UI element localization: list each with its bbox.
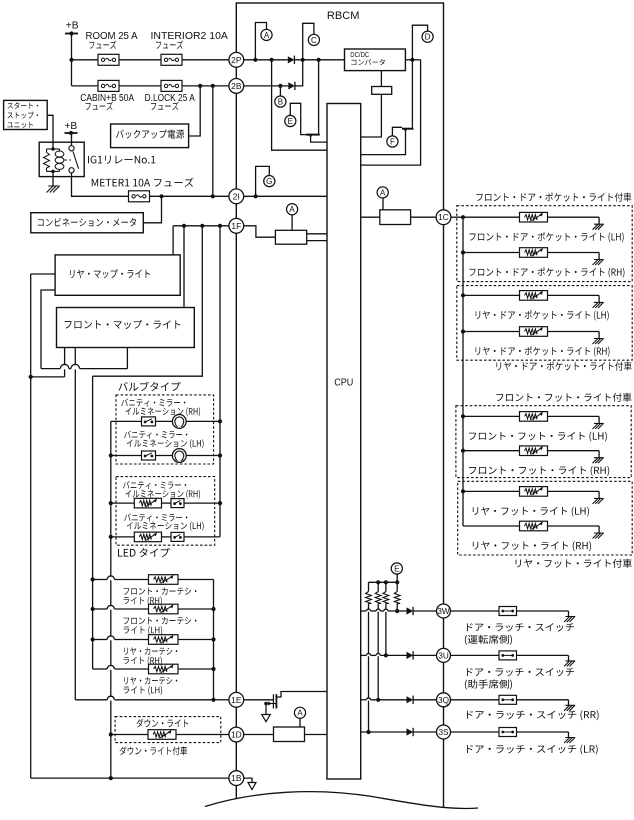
label front courtesy RH line2 (jp) [124,596,162,605]
svg-text:2B: 2B [231,81,242,91]
wire 3S switch [451,731,499,733]
label vanity LED LH line1 (jp) [124,513,187,521]
LED lamp front courtesy LH [149,604,179,614]
backup power unit box [111,124,189,148]
fuse METER1 10A [129,191,150,202]
wire rear door pocket RH row [463,331,520,333]
wire 1D to resistor [244,734,274,736]
wire DC/DC output to CPU [361,60,421,165]
label LED type (jp) [118,548,170,557]
label backup power (jp) [116,129,184,138]
LED lamp front courtesy RH [149,575,179,585]
wire door latch switch LR row [361,731,407,733]
diode door latch switch RR row [407,696,414,703]
wire 2P bus [244,59,288,61]
pin 2P [229,52,244,67]
svg-text:+B: +B [66,21,79,32]
transistor Q2 (F driver) [411,60,413,128]
connector E (bundle) [391,563,402,574]
svg-text:RBCM: RBCM [327,10,360,22]
label front foot light RH (jp) [469,466,609,476]
mosfet Q3 [272,694,274,708]
wire front map pin2 to 1E line [74,348,76,700]
bulb vanity RH [172,415,186,429]
connector C [308,34,319,45]
connector D tap [412,25,427,60]
connector G tap wire [256,166,270,196]
ground 3S [564,738,575,744]
wire courtesy right bus [213,580,215,700]
wire 1F feed to courtesy bus [93,226,203,376]
svg-text:3U: 3U [438,651,449,660]
wire 2B bus [244,85,289,87]
diode door latch switch LR row [407,728,414,735]
wire relay coil to ground [52,171,54,186]
wire diode to pin 3W [413,610,436,612]
label vanity LED LH line2 (jp) [127,522,204,531]
wire 1F bus [173,225,229,227]
svg-text:3W: 3W [437,607,450,616]
wire vanity LED row2 [111,536,135,538]
wire CPU to 1C resistor [361,216,380,218]
LED lamp rear courtesy RH [149,635,179,645]
vanity LED-type dashed box [116,477,215,546]
label bulb type (jp) [118,382,180,391]
svg-text:E: E [288,117,293,126]
wire left bus down to 1B [30,274,32,778]
RBCM module outline box [236,3,443,810]
continuation wave [205,792,478,809]
svg-text:D: D [425,33,431,42]
svg-text:A: A [297,709,303,718]
wire diode to pin 3Q [413,699,436,701]
label front door pocket RH (jp) [469,267,624,277]
switch door latch driver [499,607,517,616]
wire rear courtesy LH row [93,668,108,670]
wire 3Q switch [451,699,499,701]
wire 1E line [75,699,107,701]
wire front courtesy RH row [93,579,108,581]
svg-text:2I: 2I [233,191,240,201]
ground 3W [564,617,575,623]
svg-text:2P: 2P [231,55,242,65]
wire diode to pin 3U [413,654,436,656]
header front foot equipped (jp) [496,393,631,402]
front map light box [57,308,195,348]
label rear courtesy RH line1 (jp) [124,647,177,655]
LED lamp vanity RH [134,498,161,508]
LED lamp rear door pocket RH [520,327,548,337]
wire 1F to rear map light [172,226,174,255]
svg-text:CABIN+B 50A: CABIN+B 50A [80,93,134,104]
label door latch RR (jp) [467,710,599,720]
wire front door pocket RH row [463,252,520,254]
rear map light box [55,255,180,295]
wire door latch switch RR row [361,699,367,701]
wire front door pocket LH row [463,216,520,218]
label rear foot light RH (jp) [473,541,591,551]
ground front door pocket RH [593,260,604,266]
label vanity RH line1 (jp) [121,399,185,407]
diode on 2B bus [288,82,295,89]
LED lamp front door pocket RH [520,248,548,258]
ground rear foot light RH [593,533,604,539]
label DC/DC converter (jp) [351,59,384,65]
label door latch passenger line2 (jp) [465,679,512,689]
label rear door pocket RH (jp) [476,346,610,356]
wire 1D row [111,734,148,736]
svg-text:ROOM 25 A: ROOM 25 A [86,31,138,42]
switch vanity LED RH [171,499,184,508]
wire 1B to ground [244,778,252,782]
pin 1E [229,692,244,707]
ground arrow at 1B [248,783,256,790]
wire 1F to front map light [183,226,185,308]
wire front courtesy LH row [93,608,108,610]
svg-text:1F: 1F [231,221,241,231]
connector F [387,136,398,147]
wire 2I pin to CPU [244,195,327,197]
wire vanity bus [110,421,112,778]
wire DC/DC bottom resistor [380,71,382,87]
wire 3U switch [451,654,499,656]
wire backup-power feed from 2B row [189,86,201,136]
DC/DC converter box [345,49,406,71]
ground front foot light LH [593,423,604,429]
LED lamp down light [148,730,176,740]
svg-text:C: C [311,36,317,45]
connector E (left) [285,115,296,126]
switch door latch passenger [499,651,517,660]
svg-text:1D: 1D [231,730,242,740]
LED lamp front foot light LH [520,412,548,422]
wire 3W switch [451,610,499,612]
label front door pocket LH (jp) [469,232,623,242]
ground below relay [47,186,60,193]
label vanity LED RH line1 (jp) [123,481,186,489]
label INTERIOR2 fuse (jp) [156,40,183,48]
bulb vanity LH [172,449,186,463]
label vanity LH line2 (jp) [127,439,204,448]
connector F tap [392,127,402,136]
LED lamp front foot light RH [520,446,548,456]
label front courtesy RH line1 (jp) [124,587,197,595]
svg-text:1C: 1C [438,212,449,222]
wire door latch switch driver side row [361,610,367,612]
LED lamp rear door pocket LH [520,291,548,301]
pin 3S [437,725,451,739]
ground rear door pocket RH [593,339,604,345]
svg-text:A: A [289,205,295,214]
fuse D.LOCK 25A [161,80,182,91]
dashed box front door pocket [457,206,632,282]
wire vanity row1 [111,420,142,422]
svg-text:A: A [264,31,270,40]
wire hop-over bumps [60,365,69,369]
white mask below wave [205,792,478,820]
label front courtesy LH line2 (jp) [124,626,163,635]
connector C tap [303,23,314,60]
diode door latch switch passenger side row [407,652,414,659]
wire 1B line [31,777,229,779]
label CABIN fuse (jp) [86,102,113,110]
wire 1E to mosfet gate [244,699,274,701]
label door latch driver line2 (jp) [465,635,512,645]
pin 1C [436,210,451,225]
wire rear map lower stub to front map [41,290,55,369]
battery +B symbol bar (relay) [65,132,78,134]
CPU block [327,104,361,780]
start-stop unit box [4,100,48,129]
wire resistor to 1C [411,216,437,218]
label rear door pocket LH (jp) [476,310,609,320]
label rear foot light LH (jp) [473,507,589,517]
switch door latch RR [499,695,517,704]
connector A tap at 1D [294,707,305,718]
battery +B symbol bar [65,33,78,35]
resistor at 1F [275,230,306,244]
connector G [264,176,275,187]
diode door latch switch driver side row [407,607,414,614]
svg-text:1E: 1E [231,695,242,705]
wire rear foot light LH row [463,490,520,492]
label IG1 relay No.1 (jp) [88,156,155,164]
vanity bulb-type dashed box [116,395,214,464]
transistor Q1 (2P switch) [306,134,320,136]
svg-text:CPU: CPU [334,377,353,388]
relay IG1 No.1 box [39,142,84,176]
pull-up resistor for 3U [385,582,387,591]
resistor below DC/DC [372,87,392,95]
ground arrow below mosfet [262,715,271,722]
relay switch contacts [69,146,74,151]
label rear courtesy LH line1 (jp) [124,677,177,685]
label door latch LR (jp) [467,745,598,755]
label combination meter (jp) [38,218,136,227]
ground 3U [564,661,575,667]
connector A (top) [261,29,272,40]
relay coil and resistor [47,148,60,150]
wire courtesy left bus [92,376,94,669]
pull-up resistor for 3S [368,582,370,591]
label D.LOCK fuse (jp) [151,102,179,110]
switch vanity LH [142,451,156,460]
ground front foot light RH [593,458,604,464]
dashed box front foot light [456,406,631,478]
pin 1B [229,771,244,786]
wire DC/DC output [405,59,420,61]
svg-text:E: E [394,564,399,573]
fuse CABIN+B 50A [98,80,119,91]
pin 2B [229,79,244,94]
wire +B to relay switch [71,133,73,146]
LED lamp rear foot light RH [520,521,548,531]
svg-text:B: B [278,98,283,107]
connector E tap (left) [290,103,306,134]
wire E to resistor bundle [396,574,398,582]
pull-up resistor for 3Q [377,582,379,591]
svg-text:A: A [380,188,386,197]
wire rear door pocket LH row [463,294,520,296]
LED lamp rear foot light LH [520,487,548,497]
wire door latch switch passenger side row [361,654,367,656]
ground rear door pocket LH [593,302,604,308]
switch door latch LR [499,728,517,737]
label vanity RH line2 (jp) [125,407,200,416]
svg-text:3S: 3S [438,728,449,737]
wire 1D resistor to CPU [305,734,328,736]
wire 2P bus to DC/DC [294,59,344,61]
pin 3U [437,648,451,662]
wire 1F feed to vanity bus [219,226,221,537]
label vanity LH line1 (jp) [124,431,187,439]
wire combination meter to 2I row [143,196,161,223]
pin 1D [229,727,244,742]
combination meter box [31,213,144,233]
diode on 2P bus [288,56,295,63]
svg-text:3Q: 3Q [438,696,449,705]
label start-stop line3 (jp) [7,122,33,129]
wire 1C feed bus [451,216,463,218]
header front door pocket equipped (jp) [476,192,631,201]
wire rear courtesy RH row [93,639,108,641]
fuse ROOM 25A [98,54,119,65]
label front foot light LH (jp) [469,432,607,442]
wire 1F to sense resistor [244,226,276,237]
header rear door pocket equipped (jp) [496,361,631,370]
wire vanity row2 [111,455,142,457]
LED lamp vanity LH [134,532,161,542]
svg-text:D.LOCK 25 A: D.LOCK 25 A [145,93,195,104]
connector A tap at 1F [287,204,298,215]
wire rear foot light RH row [463,525,520,527]
wire 2B row to 2I row [212,86,214,196]
fuse INTERIOR2 10A [161,54,182,65]
wire relay switch to meter fuse row [72,173,129,197]
dashed box rear door pocket [457,286,632,361]
ground front door pocket LH [593,224,604,230]
pin 2I [229,189,244,204]
down light dashed box [115,717,221,743]
wire front foot light RH row [463,450,520,452]
svg-text:DC/DC: DC/DC [350,52,369,59]
wire meter fuse to 2I pin [149,195,229,197]
dashed box rear foot light [458,481,633,555]
svg-text:F: F [390,137,395,146]
connector A tap at 2P [255,23,266,60]
wire vanity LED row1 [111,502,135,504]
connector D [422,31,433,42]
switch vanity RH [142,417,156,426]
pin 1F [229,218,244,233]
svg-text:INTERIOR2 10A: INTERIOR2 10A [151,31,229,42]
connector A tap at 1C [377,187,388,198]
label door latch passenger line1 (jp) [467,668,574,676]
wire resistor bundle top [369,581,398,583]
label rear courtesy LH line2 (jp) [124,686,163,695]
label start-stop line1 (jp) [7,102,38,109]
label down light (jp) [136,719,188,728]
LED lamp front door pocket LH [520,212,548,222]
switch vanity LED LH [171,532,184,541]
wire 2P fuse row [72,59,99,61]
pin 3Q [437,693,451,707]
wire 2B diode to 2P node [295,60,303,86]
wire front map pin1 to left bus [64,348,66,377]
label rear map light (jp) [70,269,150,278]
LED lamp rear courtesy LH [149,664,179,674]
wire front foot light LH row [463,415,520,417]
wire diode to pin 3S [413,731,436,733]
header rear foot equipped (jp) [516,559,632,568]
svg-text:1B: 1B [231,773,242,783]
ground 3Q [564,705,575,711]
label rear courtesy RH line2 (jp) [124,656,162,665]
label front map light (jp) [65,320,181,329]
label start-stop line2 (jp) [7,112,38,119]
pin 3W [437,604,451,618]
label vanity LED RH line2 (jp) [125,490,200,499]
resistor at 1C [380,210,411,225]
wire 2P bus tap to CPU [272,60,327,150]
wire 1F resistor to CPU [307,233,327,235]
pull-up resistor for 3W [396,582,398,591]
label METER1 10A fuse (jp) [92,178,194,187]
svg-text:+B: +B [64,121,77,132]
wire 2B fuse row [72,85,99,87]
svg-text:G: G [266,177,272,186]
wire +B down to fuse rows [71,34,73,86]
wire resistor to CPU [361,94,382,137]
ground rear foot light LH [593,498,604,504]
connector B [279,86,281,96]
label door latch driver line1 (jp) [467,623,574,631]
wire rear map to left bus [31,273,55,275]
label front courtesy LH line1 (jp) [124,617,197,625]
resistor at 1D [274,727,305,742]
label ROOM fuse (jp) [89,40,116,48]
label down light equipped (jp) [120,746,188,755]
wire start-stop to relay coil [47,115,53,149]
